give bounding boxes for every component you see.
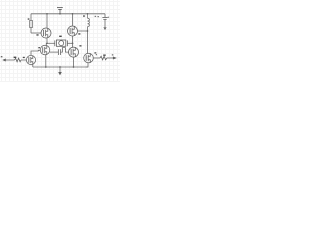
resistor R2 (15, 58, 22, 62)
inductor L1 (88, 14, 90, 27)
node Q3-gnd (45, 66, 47, 68)
label R1 (28, 18, 30, 19)
wire Q6 right lead (93, 57, 100, 59)
node rail-supply (59, 13, 61, 15)
wire L1 to Q6 (87, 27, 89, 54)
label C1 left2 (98, 16, 99, 17)
port arrow down (103, 27, 106, 30)
wire top right branch (104, 14, 106, 17)
label Q1 (36, 34, 38, 35)
label Q3 (38, 47, 40, 48)
wire source Q6 to rail (86, 63, 88, 67)
node rail-L1 (87, 13, 89, 15)
node L1-Q2 (87, 30, 89, 32)
resistor R3 (100, 56, 107, 60)
label R3 left speck (96, 54, 97, 55)
capacitor C1 (102, 18, 107, 20)
resistor R1 (30, 21, 33, 28)
wire source Q4 (73, 57, 75, 67)
wire drain Q2 (72, 14, 74, 26)
power supply terminal (57, 8, 63, 14)
wire drain Q3 from node A (45, 43, 47, 45)
transistor Q3 (40, 45, 50, 55)
output port (113, 57, 117, 60)
node rail-Q2 (72, 13, 74, 15)
ground arrow (59, 67, 61, 72)
label Q2 (78, 33, 80, 34)
wire Q2 right lead (78, 30, 88, 32)
crystal X1 (55, 40, 68, 46)
node gnd (59, 66, 61, 68)
wire cap to gate Q4 (61, 48, 69, 53)
wire node A to crystal (47, 42, 55, 44)
label L1 left (83, 15, 85, 16)
transistor Q1 (41, 28, 51, 38)
wire cap left lead (50, 51, 58, 53)
wire bottom ground rail (33, 66, 88, 68)
label C1 right (108, 17, 109, 18)
label Q4 (79, 45, 81, 46)
capacitor C2 (58, 49, 60, 55)
wire gate Q1 (31, 32, 41, 34)
wire source Q2 to drain Q4 (72, 36, 74, 48)
wire source Q1 to node A (46, 38, 48, 44)
transistor Q5 (26, 55, 35, 64)
node A (46, 42, 48, 44)
wire source Q3 (45, 55, 47, 67)
wire R2 to gate Q5 (21, 59, 26, 61)
wire top supply rail (31, 13, 105, 15)
transistor Q6 (84, 53, 94, 63)
wire drain Q1 (46, 14, 48, 28)
label X1 (59, 36, 62, 37)
label R3 (103, 55, 106, 56)
label Q5 (23, 57, 25, 58)
wire C1 down (104, 20, 106, 27)
node B (72, 42, 74, 44)
label Q6 (94, 52, 96, 53)
wire left branch (30, 14, 32, 33)
label output (112, 54, 114, 55)
node rail-Q1 (46, 13, 48, 15)
label input (1, 56, 3, 57)
transistor Q4 (69, 47, 79, 57)
label C1 left (95, 16, 97, 17)
wire input (5, 59, 15, 61)
input port (2, 59, 6, 62)
wire gate Q3 from Q5 (31, 50, 40, 55)
wire crystal to node B (67, 42, 72, 44)
wire R3 to output (107, 57, 113, 59)
label R2 (14, 57, 17, 58)
wire source Q5 to ground rail (32, 64, 34, 67)
node Q4-gnd (73, 66, 75, 68)
transistor Q2 (68, 26, 78, 36)
